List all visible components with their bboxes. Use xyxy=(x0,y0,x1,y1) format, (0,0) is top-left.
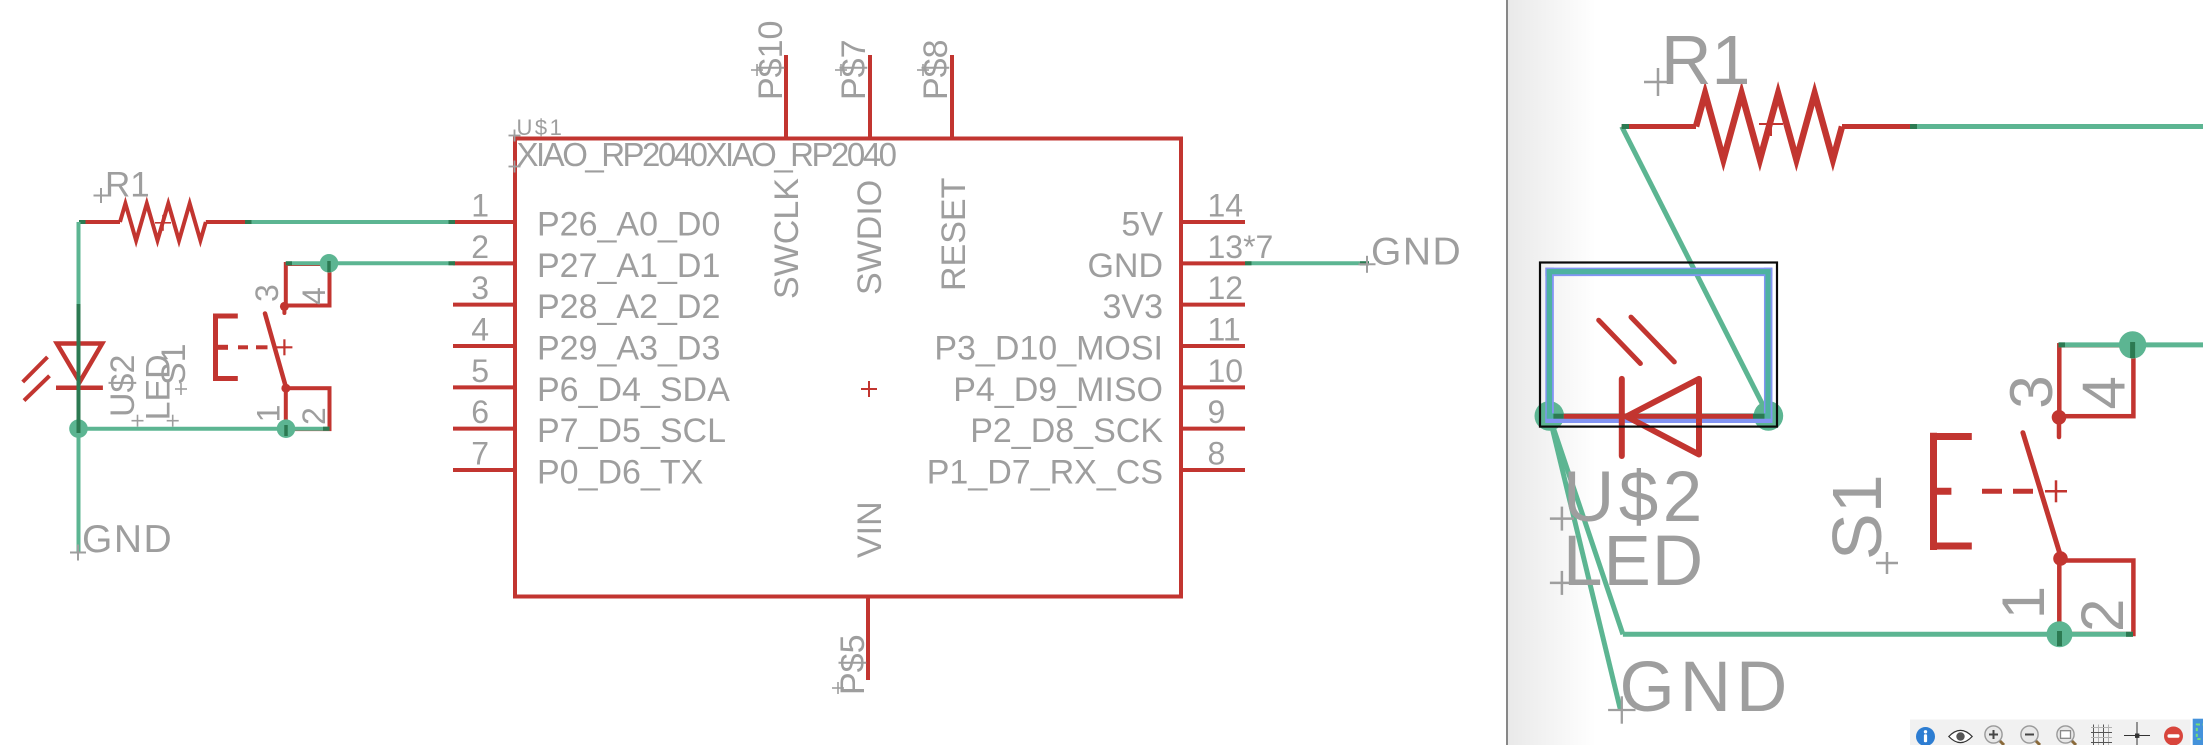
svg-text:P4_D9_MISO: P4_D9_MISO xyxy=(953,371,1163,409)
svg-text:LED: LED xyxy=(1563,522,1704,601)
svg-text:11: 11 xyxy=(1208,311,1241,347)
svg-text:P27_A1_D1: P27_A1_D1 xyxy=(537,247,720,285)
svg-text:5: 5 xyxy=(471,353,489,389)
svg-text:GND: GND xyxy=(1371,231,1462,274)
svg-text:10: 10 xyxy=(1208,353,1244,389)
svg-text:P26_A0_D0: P26_A0_D0 xyxy=(537,206,720,244)
svg-text:GND: GND xyxy=(1620,648,1793,727)
svg-text:1: 1 xyxy=(471,188,489,224)
svg-text:3V3: 3V3 xyxy=(1103,288,1164,326)
svg-text:XIAO_RP2040XIAO_RP2040: XIAO_RP2040XIAO_RP2040 xyxy=(517,136,897,173)
svg-text:8: 8 xyxy=(1208,435,1226,471)
svg-text:P3_D10_MOSI: P3_D10_MOSI xyxy=(934,329,1163,367)
svg-text:S1: S1 xyxy=(155,343,193,385)
svg-text:2: 2 xyxy=(296,407,332,425)
svg-text:R1: R1 xyxy=(105,166,150,205)
svg-text:P6_D4_SDA: P6_D4_SDA xyxy=(537,371,730,409)
svg-text:P28_A2_D2: P28_A2_D2 xyxy=(537,288,720,326)
svg-text:R1: R1 xyxy=(1661,21,1750,99)
svg-text:2: 2 xyxy=(2069,599,2136,632)
svg-text:12: 12 xyxy=(1208,270,1244,306)
svg-text:6: 6 xyxy=(471,394,489,430)
svg-text:P2_D8_SCK: P2_D8_SCK xyxy=(970,412,1163,450)
svg-text:P0_D6_TX: P0_D6_TX xyxy=(537,453,703,491)
svg-text:GND: GND xyxy=(82,518,173,561)
svg-text:4: 4 xyxy=(296,287,332,305)
svg-text:5V: 5V xyxy=(1121,206,1163,244)
svg-text:3: 3 xyxy=(1998,375,2065,408)
svg-text:P29_A3_D3: P29_A3_D3 xyxy=(537,329,720,367)
svg-text:RESET: RESET xyxy=(935,178,973,291)
svg-text:2: 2 xyxy=(471,229,489,265)
svg-text:3: 3 xyxy=(471,270,489,306)
svg-text:S1: S1 xyxy=(1818,474,1896,560)
svg-text:13*7: 13*7 xyxy=(1208,229,1274,265)
svg-text:9: 9 xyxy=(1208,394,1226,430)
svg-text:GND: GND xyxy=(1087,247,1163,285)
svg-text:4: 4 xyxy=(471,311,489,347)
svg-text:VIN: VIN xyxy=(851,501,889,558)
svg-text:P$5: P$5 xyxy=(834,635,872,696)
svg-text:P7_D5_SCL: P7_D5_SCL xyxy=(537,412,726,450)
svg-text:P$10: P$10 xyxy=(752,21,790,100)
svg-text:SWDIO: SWDIO xyxy=(851,180,889,295)
svg-text:7: 7 xyxy=(471,435,489,471)
svg-text:3: 3 xyxy=(249,284,285,302)
svg-text:1: 1 xyxy=(251,405,287,423)
svg-text:U$2: U$2 xyxy=(104,355,142,417)
svg-text:4: 4 xyxy=(2071,376,2138,409)
svg-text:P1_D7_RX_CS: P1_D7_RX_CS xyxy=(927,453,1163,491)
svg-text:14: 14 xyxy=(1208,188,1244,224)
svg-text:1: 1 xyxy=(1990,586,2057,619)
svg-text:SWCLK: SWCLK xyxy=(768,178,806,299)
